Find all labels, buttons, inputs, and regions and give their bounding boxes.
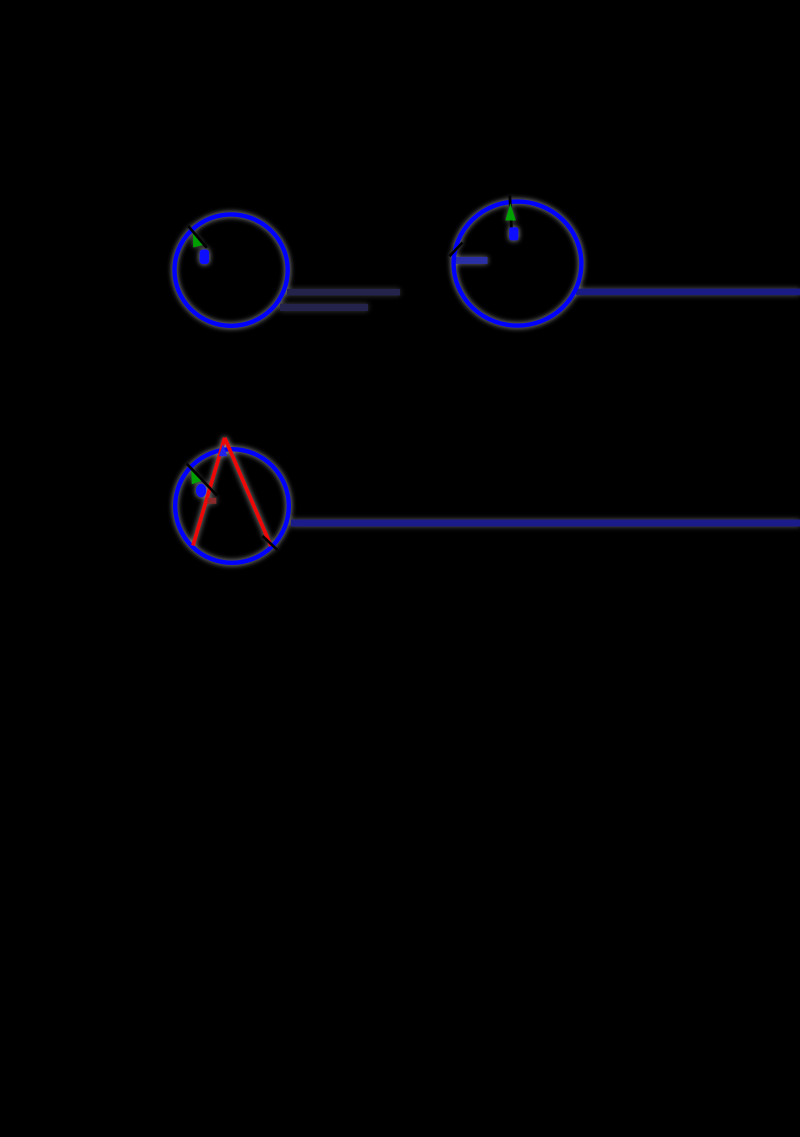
artwork [175,196,800,563]
jpeg-artifact gray halo [175,196,800,563]
